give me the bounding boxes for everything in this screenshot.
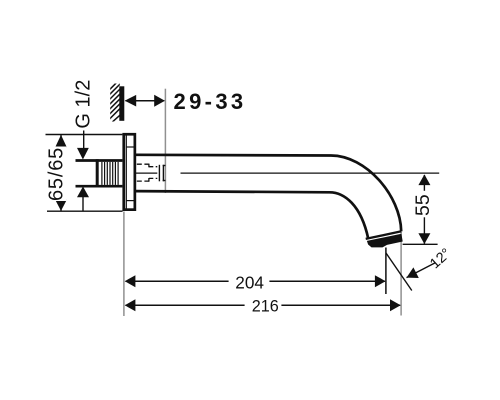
svg-text:G 1/2: G 1/2 — [72, 80, 94, 129]
svg-text:29-33: 29-33 — [174, 89, 247, 114]
svg-text:204: 204 — [235, 272, 264, 292]
svg-text:216: 216 — [252, 298, 279, 316]
svg-text:55: 55 — [412, 194, 434, 216]
svg-text:65/65: 65/65 — [46, 147, 68, 201]
